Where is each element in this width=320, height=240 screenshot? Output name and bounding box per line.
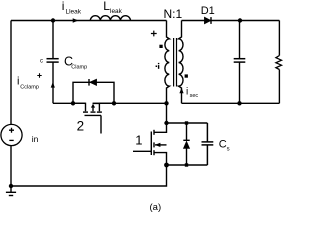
- svg-text:2: 2: [77, 118, 85, 133]
- label i primary: [156, 66, 158, 68]
- node output cap bottom: [237, 101, 241, 105]
- current arrow isec: [179, 88, 183, 94]
- svg-text:Cclamp: Cclamp: [20, 84, 39, 90]
- node junction top clamp: [51, 18, 55, 22]
- svg-text:i: i: [17, 76, 19, 88]
- svg-text:s: s: [227, 147, 230, 153]
- transistor Q2 (MOSFET 2, clamp switch): [73, 103, 114, 133]
- svg-text:N:1: N:1: [164, 7, 183, 21]
- transformer T1 secondary: [179, 21, 183, 104]
- transformer T1 primary: [165, 21, 169, 104]
- resistor Rload: [276, 56, 282, 70]
- svg-text:D1: D1: [201, 5, 215, 17]
- capacitor Cout: [234, 59, 246, 62]
- wire snubber top rail: [167, 122, 208, 124]
- transformer T1 core: [174, 38, 177, 87]
- node B clamp rail: [112, 101, 116, 105]
- svg-text:leak: leak: [110, 8, 123, 15]
- svg-text:1: 1: [135, 133, 142, 148]
- wire output cap upper: [239, 21, 241, 59]
- node junction output cap top: [238, 18, 242, 22]
- wire clamp rail right: [93, 102, 167, 104]
- svg-text:i: i: [186, 87, 188, 98]
- diode D1: [204, 17, 211, 24]
- svg-text:C: C: [219, 139, 227, 151]
- wire left vertical to source: [10, 21, 12, 125]
- capacitor Cclamp: [47, 59, 59, 62]
- diode body (antiparallel of Q1): [183, 123, 189, 165]
- diode clamp (points left): [90, 79, 97, 85]
- svg-text:c: c: [40, 58, 43, 64]
- arrow Q2 body: [91, 104, 95, 108]
- wire drain from node to M1: [166, 103, 168, 123]
- wire output cap lower: [239, 62, 241, 103]
- node diode top: [185, 121, 188, 124]
- node M1 drain: [164, 121, 168, 125]
- wire load right vertical lower: [278, 70, 280, 104]
- wire top-left rail: [11, 20, 167, 22]
- svg-text:sec: sec: [190, 93, 199, 99]
- diode clamp loop wires: [73, 82, 114, 103]
- wire ground rail bottom: [11, 165, 167, 186]
- wire snubber bottom rail: [167, 164, 208, 166]
- node phase dot secondary: [185, 74, 188, 77]
- wire top-right rail: [182, 20, 280, 22]
- current arrow iLleak: [73, 18, 79, 22]
- capacitor Cs: [202, 123, 214, 165]
- wire source to ground: [10, 146, 12, 186]
- svg-text:i: i: [62, 0, 65, 13]
- wire clamp rail left: [53, 102, 86, 104]
- wire clamp cap branch upper: [52, 21, 54, 59]
- source Vin: [1, 124, 22, 145]
- ground: [6, 186, 16, 196]
- svg-text:Lleak: Lleak: [66, 8, 82, 15]
- label plus primary: [151, 31, 157, 37]
- current arrow iCclamp: [51, 82, 55, 88]
- svg-text:(a): (a): [150, 202, 162, 212]
- inductor Lleak: [90, 16, 130, 21]
- node A clamp rail: [71, 101, 75, 105]
- node primary bottom: [164, 101, 168, 105]
- wire load right vertical upper: [278, 21, 280, 56]
- wire secondary bottom rail: [182, 102, 280, 104]
- arrow Q1 body: [155, 143, 161, 147]
- svg-text:in: in: [32, 134, 39, 144]
- node phase dot primary: [159, 45, 162, 48]
- node diode bottom: [185, 163, 188, 166]
- label plus clamp: [37, 73, 41, 77]
- wire clamp cap branch lower: [52, 62, 54, 103]
- node ground junction: [9, 184, 13, 188]
- svg-text:Clamp: Clamp: [71, 64, 87, 70]
- transistor Q1 (MOSFET 1, main switch): [133, 123, 167, 165]
- node M1 source: [164, 163, 169, 168]
